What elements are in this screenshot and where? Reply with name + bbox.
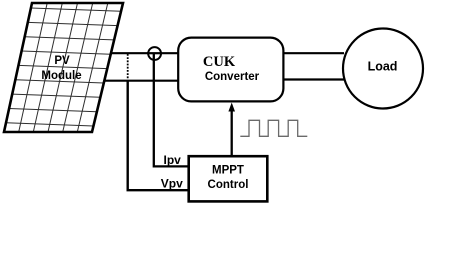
wire PV bottom to CUK	[104, 80, 178, 82]
wire Vpv sense (bottom wire down to MPPT)	[128, 81, 188, 191]
PV module border	[4, 3, 123, 132]
wire Ipv sense (junction down to MPPT)	[154, 53, 188, 166]
wire CUK to Load top	[284, 52, 344, 54]
dotted sense line	[127, 54, 129, 80]
svg-text:CUK: CUK	[203, 54, 236, 70]
svg-text:Load: Load	[368, 60, 398, 74]
svg-text:Vpv: Vpv	[161, 177, 183, 191]
CUK converter block U1	[178, 38, 283, 102]
svg-text:Converter: Converter	[205, 71, 260, 83]
svg-text:Ipv: Ipv	[164, 153, 182, 167]
svg-text:Module: Module	[41, 70, 81, 82]
wire through junction	[147, 52, 162, 54]
svg-text:PV: PV	[54, 55, 70, 67]
MPPT control block	[189, 156, 268, 201]
wire MPPT to CUK (gate drive)	[231, 110, 233, 156]
PWM square wave symbol	[240, 120, 307, 136]
arrowhead	[228, 103, 235, 112]
wire PV top to CUK	[110, 52, 178, 54]
PV module panel grid	[6, 3, 121, 132]
svg-text:MPPT: MPPT	[212, 165, 244, 177]
svg-text:Control: Control	[208, 179, 249, 191]
Load circle	[343, 29, 423, 109]
node junction circle	[148, 47, 161, 60]
wire CUK to Load bottom	[284, 78, 345, 80]
